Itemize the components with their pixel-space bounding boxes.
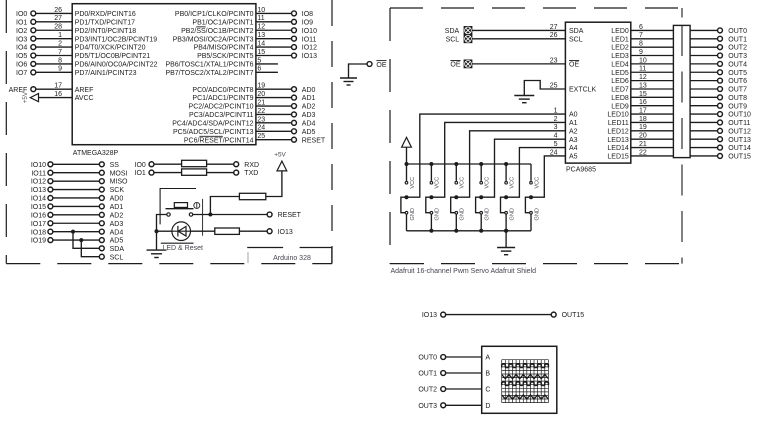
wire IO18 to AD4 — [53, 231, 99, 233]
svg-text:PD4/T0/XCK/PCINT20: PD4/T0/XCK/PCINT20 — [75, 45, 146, 52]
wire U1 pin 23 to AD4 — [256, 122, 292, 124]
svg-text:A: A — [485, 355, 490, 362]
svg-text:A0: A0 — [569, 112, 578, 119]
svg-text:IO10: IO10 — [302, 28, 317, 35]
terminal OUT1 (matrix) — [441, 371, 446, 376]
terminal IO18 — [48, 229, 53, 234]
wire IO14 to AD0 — [53, 197, 99, 199]
terminal SCK — [99, 187, 104, 192]
wire U2 LED8 to connector — [631, 96, 674, 98]
wire LED cathode to R2 — [191, 230, 215, 232]
svg-text:GND: GND — [460, 208, 466, 220]
wire R2 to IO13 — [239, 230, 267, 232]
overline over OE terminal label — [376, 60, 386, 62]
svg-text:1: 1 — [58, 32, 62, 39]
wire connector to OUT13 — [690, 138, 718, 140]
svg-text:OE: OE — [569, 61, 579, 68]
jumper J4 VCC pad — [505, 181, 508, 184]
svg-text:AREF: AREF — [75, 87, 94, 94]
svg-text:PB3/MOSI/OC2A/PCINT3: PB3/MOSI/OC2A/PCINT3 — [173, 36, 254, 43]
terminal OUT2 — [718, 45, 723, 50]
svg-text:PD0/RXD/PCINT16: PD0/RXD/PCINT16 — [75, 11, 136, 18]
terminal OUT9 — [718, 103, 723, 108]
svg-text:SCL: SCL — [569, 36, 583, 43]
svg-text:+5V: +5V — [22, 91, 29, 103]
svg-text:AD3: AD3 — [302, 112, 316, 119]
terminal IO17 — [48, 221, 53, 226]
svg-text:PC0/ADC0/PCINT8: PC0/ADC0/PCINT8 — [192, 87, 253, 94]
junction GND rail col4 — [504, 229, 508, 233]
svg-text:27: 27 — [54, 15, 62, 22]
wire U2 LED1 to connector — [631, 38, 674, 40]
svg-text:VCC: VCC — [410, 177, 416, 189]
svg-text:MISO: MISO — [110, 179, 128, 186]
svg-text:25: 25 — [550, 82, 558, 89]
svg-text:OUT15: OUT15 — [562, 312, 585, 319]
terminal OUT8 — [718, 95, 723, 100]
wire U2 LED9 to connector — [631, 105, 674, 107]
svg-text:7: 7 — [58, 49, 62, 56]
svg-text:28: 28 — [54, 24, 62, 31]
svg-text:VCC: VCC — [435, 177, 441, 189]
junction VCC rail col4 — [504, 162, 508, 166]
net connector OE (x-box) — [464, 60, 472, 68]
svg-text:IO7: IO7 — [16, 70, 27, 77]
resistor R3 (RXD) — [182, 160, 207, 166]
svg-text:IO11: IO11 — [302, 36, 317, 43]
svg-text:AD2: AD2 — [302, 104, 316, 111]
terminal IO13 — [292, 53, 297, 58]
wire R3 to RXD — [207, 163, 234, 165]
jumper J0 GND elbow — [401, 197, 407, 213]
svg-text:OUT10: OUT10 — [728, 112, 751, 119]
terminal IO16 — [48, 212, 53, 217]
svg-text:PD1/TXD/PCINT17: PD1/TXD/PCINT17 — [75, 19, 135, 26]
wire U1 pin 25 to RESET — [256, 139, 292, 141]
jumper J2 VCC pad — [455, 181, 458, 184]
svg-text:OUT4: OUT4 — [728, 61, 747, 68]
terminal IO11 — [292, 36, 297, 41]
svg-text:GND: GND — [509, 208, 515, 220]
svg-text:VCC: VCC — [534, 177, 540, 189]
terminal AD5 — [99, 238, 104, 243]
terminal IO13 (LED) — [267, 229, 272, 234]
svg-text:LED13: LED13 — [607, 137, 629, 144]
terminal IO9 — [292, 19, 297, 24]
jumper J1 GND elbow — [426, 197, 432, 213]
svg-text:AD3: AD3 — [110, 221, 124, 228]
svg-text:AD4: AD4 — [110, 229, 124, 236]
svg-text:PC6/RESET/PCINT14: PC6/RESET/PCINT14 — [184, 137, 254, 144]
svg-text:LED7: LED7 — [611, 87, 629, 94]
svg-text:LED10: LED10 — [607, 112, 629, 119]
wire IO1 to U1 pin 27 — [36, 21, 72, 23]
svg-text:LED & Reset: LED & Reset — [163, 245, 204, 252]
terminal IO10 — [48, 162, 53, 167]
junction VCC rail col1 — [429, 162, 433, 166]
svg-text:IO6: IO6 — [16, 62, 27, 69]
svg-text:D: D — [485, 403, 490, 410]
svg-text:OUT3: OUT3 — [728, 53, 747, 60]
wire connector to OUT10 — [690, 113, 718, 115]
svg-text:IO16: IO16 — [31, 212, 46, 219]
terminal MISO — [99, 179, 104, 184]
junction A5 net — [529, 195, 533, 199]
terminal AD0 — [99, 196, 104, 201]
wire IO2 to U1 pin 28 — [36, 29, 72, 31]
ground symbol at EXTCLK — [514, 95, 534, 97]
svg-text:PD3/INT1/OC2B/PCINT19: PD3/INT1/OC2B/PCINT19 — [75, 36, 158, 43]
svg-text:OUT12: OUT12 — [728, 128, 751, 135]
svg-text:PCA9685: PCA9685 — [566, 167, 596, 174]
svg-text:AD5: AD5 — [110, 238, 124, 245]
wire IO19 to AD5 — [53, 239, 99, 241]
wire connector to OUT9 — [690, 105, 718, 107]
svg-text:VCC: VCC — [509, 177, 515, 189]
svg-text:IO13: IO13 — [302, 53, 317, 60]
svg-text:2: 2 — [58, 40, 62, 47]
wire IO17 to AD3 — [53, 222, 99, 224]
wire IO0 to U1 pin 26 — [36, 12, 72, 14]
terminal IO3 — [31, 36, 36, 41]
terminal AD3 — [292, 112, 297, 117]
svg-text:GND: GND — [435, 208, 441, 220]
svg-text:Arduino 328: Arduino 328 — [273, 255, 311, 262]
jumper J1 GND pad — [430, 211, 433, 214]
wire GND rail — [407, 230, 532, 232]
terminal OUT6 — [718, 78, 723, 83]
wire connector to OUT3 — [690, 55, 718, 57]
wire OUT0 to matrix pin A — [446, 356, 482, 358]
svg-text:GND: GND — [410, 208, 416, 220]
jumper J1 GND drop — [430, 214, 432, 231]
svg-text:SCL: SCL — [110, 254, 124, 261]
frame: Arduino 328 dashed border left — [5, 0, 7, 264]
wire A0 from switch to U2 — [407, 114, 566, 197]
terminal SDA — [99, 246, 104, 251]
wire IO11 to MOSI — [53, 172, 99, 174]
svg-text:SDA: SDA — [110, 246, 125, 253]
jumper J5 VCC pad — [530, 181, 533, 184]
svg-text:PD5/T1/OC0B/PCINT21: PD5/T1/OC0B/PCINT21 — [75, 53, 151, 60]
jumper J0 VCC drop — [406, 164, 408, 181]
wire OUT1 to matrix pin B — [446, 372, 482, 374]
terminal OUT5 — [718, 70, 723, 75]
svg-text:Adafruit 16-channel Pwm Servo: Adafruit 16-channel Pwm Servo Adafruit S… — [391, 268, 537, 275]
wire OE to ground — [349, 64, 367, 78]
svg-text:ATMEGA328P: ATMEGA328P — [73, 150, 119, 157]
wire U2 LED2 to connector — [631, 46, 674, 48]
junction VCC rail col0 — [405, 162, 409, 166]
terminal AD4 — [99, 229, 104, 234]
svg-text:A4: A4 — [569, 145, 578, 152]
svg-text:PB4/MISO/PCINT4: PB4/MISO/PCINT4 — [194, 45, 254, 52]
wire AREF to U1 pin 17 — [36, 88, 72, 90]
wire connector to OUT12 — [690, 130, 718, 132]
power +5V arrow (address jumpers) — [402, 137, 412, 147]
svg-text:LED1: LED1 — [611, 36, 629, 43]
svg-text:OE: OE — [450, 61, 460, 68]
frame: Adafruit shield dashed border bottom — [390, 263, 682, 265]
svg-text:C: C — [485, 387, 490, 394]
frame: Arduino 328 dashed border bottom — [6, 263, 332, 265]
junction GND rail col1 — [429, 229, 433, 233]
wire IO12 to MISO — [53, 180, 99, 182]
terminal IO5 — [31, 53, 36, 58]
jumper J2 GND elbow — [451, 197, 457, 213]
svg-text:IO10: IO10 — [31, 162, 46, 169]
svg-text:A5: A5 — [569, 154, 578, 161]
svg-text:LED9: LED9 — [611, 103, 629, 110]
jumper J1 VCC pad — [430, 181, 433, 184]
svg-text:IO12: IO12 — [31, 179, 46, 186]
svg-text:VCC: VCC — [485, 177, 491, 189]
svg-text:PB2/SS/OC1B/PCINT2: PB2/SS/OC1B/PCINT2 — [181, 28, 253, 35]
wire IO1 to R4 — [154, 172, 182, 174]
svg-text:IO13: IO13 — [278, 229, 293, 236]
ground symbol at LED — [156, 231, 158, 250]
svg-text:OUT8: OUT8 — [728, 95, 747, 102]
terminal SCL — [99, 254, 104, 259]
terminal IO6 — [31, 61, 36, 66]
wire U2 LED0 to connector — [631, 29, 674, 31]
svg-text:LED11: LED11 — [608, 120, 629, 127]
wire U1 pin 11 to IO9 — [256, 21, 292, 23]
wire A5 from switch to U2 — [531, 156, 565, 197]
junction A4 net — [504, 195, 508, 199]
wire U2 LED5 to connector — [631, 71, 674, 73]
wire SCL x-box to U2 pin 26 — [472, 38, 566, 40]
junction on IO19 wire — [79, 238, 83, 242]
jumper J3 GND pad — [480, 211, 483, 214]
svg-text:PB0/ICP1/CLKO/PCINT0: PB0/ICP1/CLKO/PCINT0 — [175, 11, 254, 18]
svg-text:OUT2: OUT2 — [418, 387, 437, 394]
svg-text:B: B — [485, 371, 490, 378]
power +5V arrow (reset pullup) — [277, 161, 287, 171]
svg-text:IO0: IO0 — [135, 162, 146, 169]
svg-text:VCC: VCC — [460, 177, 466, 189]
wire connector to OUT0 — [690, 29, 718, 31]
jumper J3 GND elbow — [476, 197, 482, 213]
jumper J4 GND pad — [505, 211, 508, 214]
frame: Adafruit shield dashed border top — [390, 7, 682, 9]
terminal RESET (button) — [267, 212, 272, 217]
wire IO3 to U1 pin 1 — [36, 38, 72, 40]
jumper J5 GND elbow — [525, 197, 531, 213]
svg-text:A1: A1 — [569, 120, 578, 127]
overline over RESET — [199, 135, 222, 137]
svg-text:IO12: IO12 — [302, 45, 317, 52]
IC U2 body: PCA9685 outline — [565, 22, 630, 163]
terminal OUT3 (matrix) — [441, 403, 446, 408]
wire A1 from switch to U2 — [431, 122, 565, 197]
svg-text:TXD: TXD — [244, 170, 258, 177]
wire IO4 to U1 pin 2 — [36, 46, 72, 48]
svg-text:RESET: RESET — [278, 212, 302, 219]
svg-text:OUT1: OUT1 — [728, 36, 747, 43]
svg-text:9: 9 — [58, 66, 62, 73]
terminal IO1 — [31, 19, 36, 24]
terminal IO4 — [31, 45, 36, 50]
svg-text:RESET: RESET — [302, 137, 326, 144]
terminal RXD — [234, 162, 239, 167]
resistor R2 (LED) — [215, 228, 240, 234]
svg-text:SCL: SCL — [446, 36, 460, 43]
wire VCC rail — [407, 163, 532, 165]
terminal AD1 — [292, 95, 297, 100]
svg-text:LED4: LED4 — [611, 61, 629, 68]
terminal IO12 — [48, 179, 53, 184]
wire A2 from switch to U2 — [456, 131, 565, 197]
terminal IO11 — [48, 170, 53, 175]
jumper J2 GND pad — [455, 211, 458, 214]
terminal TXD — [234, 170, 239, 175]
wire IO18 junction to SDA — [73, 232, 99, 249]
terminal IO0 — [31, 11, 36, 16]
wire connector to OUT8 — [690, 96, 718, 98]
wire U2 LED15 to connector — [631, 155, 674, 157]
wire IO5 to U1 pin 7 — [36, 55, 72, 57]
wire U1 pin 22 to AD3 — [256, 113, 292, 115]
overline over SS — [196, 26, 205, 28]
svg-text:PD6/AIN0/OC0A/PCINT22: PD6/AIN0/OC0A/PCINT22 — [75, 62, 158, 69]
overline over OE x-box label — [450, 59, 460, 61]
wire U1 pin 15 to IO13 — [256, 55, 292, 57]
op-amp U1 body: ATMEGA328P IC outline — [72, 4, 256, 145]
svg-text:OUT5: OUT5 — [728, 70, 747, 77]
wire U1 pin 13 to IO11 — [256, 38, 292, 40]
svg-text:GND: GND — [534, 208, 540, 220]
terminal IO15 — [48, 204, 53, 209]
svg-text:OUT13: OUT13 — [728, 137, 751, 144]
svg-text:LED12: LED12 — [607, 128, 629, 135]
wire U2 LED12 to connector — [631, 130, 674, 132]
jumper J2 VCC drop — [455, 164, 457, 181]
LED matrix M1 body — [482, 346, 557, 413]
overline over OE pin name — [569, 59, 579, 61]
junction A3 net — [479, 195, 483, 199]
svg-text:OUT2: OUT2 — [728, 45, 747, 52]
wire IO6 to U1 pin 8 — [36, 63, 72, 65]
terminal AD2 — [99, 212, 104, 217]
svg-text:LED15: LED15 — [607, 154, 629, 161]
wire OUT2 to matrix pin C — [446, 388, 482, 390]
terminal OUT0 (matrix) — [441, 355, 446, 360]
svg-text:PB7/TOSC2/XTAL2/PCINT7: PB7/TOSC2/XTAL2/PCINT7 — [165, 70, 253, 77]
svg-text:PC4/ADC4/SDA/PCINT12: PC4/ADC4/SDA/PCINT12 — [172, 120, 253, 127]
terminal OUT14 — [718, 145, 723, 150]
wire U2 LED11 to connector — [631, 121, 674, 123]
net connector SDA (x-box) — [464, 27, 472, 35]
terminal AD4 — [292, 120, 297, 125]
junction A1 net — [429, 195, 433, 199]
wire U1 pin 21 to AD2 — [256, 105, 292, 107]
pushbutton S1 frame line — [202, 199, 204, 236]
svg-text:OUT9: OUT9 — [728, 103, 747, 110]
svg-text:OUT11: OUT11 — [728, 120, 750, 127]
svg-text:LED6: LED6 — [611, 78, 629, 85]
terminal AD3 — [99, 221, 104, 226]
svg-text:IO3: IO3 — [16, 36, 27, 43]
terminal IO19 — [48, 238, 53, 243]
wire U2 LED7 to connector — [631, 88, 674, 90]
svg-text:PC5/ADC5/SCL/PCINT13: PC5/ADC5/SCL/PCINT13 — [173, 129, 254, 136]
terminal IO7 — [31, 70, 36, 75]
pushbutton S1 lever — [166, 208, 194, 210]
wire U2 LED13 to connector — [631, 138, 674, 140]
svg-text:IO1: IO1 — [16, 19, 27, 26]
svg-text:IO2: IO2 — [16, 28, 27, 35]
terminal OUT2 (matrix) — [441, 387, 446, 392]
wire U2 LED4 to connector — [631, 63, 674, 65]
wire U2 LED6 to connector — [631, 80, 674, 82]
terminal OUT0 — [718, 28, 723, 33]
svg-text:SS: SS — [110, 162, 120, 169]
wire U2 LED3 to connector — [631, 55, 674, 57]
wire +5V arrow to VCC rail — [406, 147, 408, 164]
wire U1 pin 14 to IO12 — [256, 46, 292, 48]
svg-text:LED14: LED14 — [607, 145, 629, 152]
wire U1 pin 19 to AD0 — [256, 88, 292, 90]
svg-text:IO11: IO11 — [31, 170, 46, 177]
jumper J3 VCC drop — [480, 164, 482, 181]
svg-text:A3: A3 — [569, 137, 578, 144]
LED matrix graphic — [502, 360, 549, 403]
svg-text:IO4: IO4 — [16, 45, 27, 52]
svg-text:OUT1: OUT1 — [418, 371, 437, 378]
frame: Arduino 328 dashed border right — [331, 0, 333, 264]
svg-text:GND: GND — [485, 208, 491, 220]
svg-text:PB6/TOSC1/XTAL1/PCINT6: PB6/TOSC1/XTAL1/PCINT6 — [165, 62, 253, 69]
junction GND rail col2 — [454, 229, 458, 233]
svg-text:OUT3: OUT3 — [418, 403, 437, 410]
label LED & Reset underline — [161, 242, 194, 244]
jumper J5 GND pad — [530, 211, 533, 214]
svg-text:IO17: IO17 — [31, 221, 46, 228]
svg-text:OUT14: OUT14 — [728, 145, 751, 152]
junction RESET net — [208, 213, 212, 217]
frame: Adafruit shield dashed border left — [389, 8, 391, 264]
terminal AD1 — [99, 204, 104, 209]
svg-text:PC2/ADC2/PCINT10: PC2/ADC2/PCINT10 — [189, 104, 254, 111]
wire connector to OUT15 — [690, 155, 718, 157]
LED D1 — [172, 222, 191, 241]
svg-text:IO9: IO9 — [302, 19, 313, 26]
wire SDA x-box to U2 pin 27 — [472, 29, 566, 31]
wire IO13 to OUT15 — [446, 314, 551, 316]
terminal OUT1 — [718, 36, 723, 41]
terminal OUT4 — [718, 61, 723, 66]
wire connector to OUT6 — [690, 80, 718, 82]
svg-text:IO0: IO0 — [16, 11, 27, 18]
terminal OUT10 — [718, 112, 723, 117]
junction VCC rail col3 — [479, 162, 483, 166]
svg-text:IO5: IO5 — [16, 53, 27, 60]
svg-text:PC3/ADC3/PCINT11: PC3/ADC3/PCINT11 — [189, 112, 254, 119]
terminal AD5 — [292, 129, 297, 134]
svg-text:27: 27 — [550, 24, 558, 31]
wire U1 pin 12 to IO10 — [256, 29, 292, 31]
jumper J3 VCC pad — [480, 181, 483, 184]
terminal IO14 — [48, 196, 53, 201]
wire stub XTAL2 pin 6 — [256, 71, 278, 73]
wire connector to OUT7 — [690, 88, 718, 90]
svg-text:LED2: LED2 — [611, 45, 629, 52]
jumper J5 GND drop — [530, 214, 532, 231]
ground symbol at jumper rail — [505, 231, 507, 248]
wire S1 right contact to RESET — [193, 214, 267, 216]
wire OE x-box to U2 pin 23 — [472, 63, 566, 65]
